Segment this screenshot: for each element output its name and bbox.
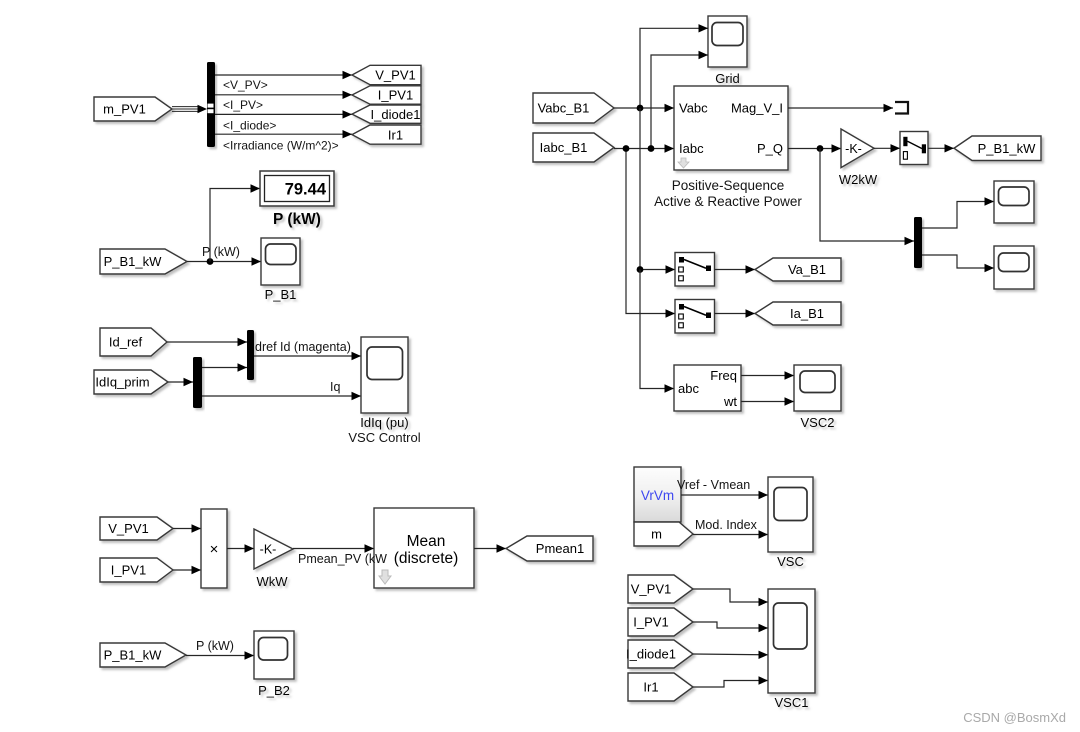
svg-text:I_PV1: I_PV1 bbox=[111, 563, 146, 578]
svg-text:VSC2: VSC2 bbox=[801, 415, 835, 430]
Goto tag V_PV1 (top) bbox=[352, 65, 421, 84]
wire Demux out2 to scope bbox=[922, 255, 994, 272]
wire Manual Switch to Goto P_B1_kW bbox=[928, 144, 954, 152]
From tag Ir1 (from, right) bbox=[628, 673, 693, 701]
wire Iabc_B1 to Iabc input bbox=[614, 144, 674, 152]
junction Vabc lower branch bbox=[637, 266, 644, 273]
wire Id_ref to Mux bbox=[167, 338, 247, 346]
svg-text:Active & Reactive Power: Active & Reactive Power bbox=[654, 194, 802, 209]
product block (multiply) bbox=[201, 509, 227, 588]
From tag Iabc_B1 bbox=[533, 133, 614, 162]
wire Mean to Pmean1 bbox=[474, 544, 506, 552]
wire IdIq_prim to Demux bbox=[168, 378, 193, 386]
svg-text:VSC1: VSC1 bbox=[775, 695, 809, 710]
svg-text:-K-: -K- bbox=[260, 543, 277, 557]
svg-text:P_B2: P_B2 bbox=[258, 683, 290, 698]
scope VSC1 bbox=[768, 589, 815, 710]
svg-text:IdIq_prim: IdIq_prim bbox=[95, 375, 149, 390]
wire switch 1 to Va_B1 bbox=[715, 265, 756, 273]
svg-text:Ir1: Ir1 bbox=[643, 680, 658, 695]
Positive-Sequence Active & Reactive Power block bbox=[674, 86, 788, 170]
wire wt to VSC2 bbox=[741, 397, 794, 405]
Goto tag I_PV1 (top) bbox=[352, 86, 421, 104]
svg-text:Pmean_PV (kW: Pmean_PV (kW bbox=[298, 552, 387, 566]
Goto tag Ir1 (top) bbox=[352, 125, 421, 144]
svg-text:P (kW): P (kW) bbox=[196, 639, 234, 653]
Mean (discrete) block bbox=[374, 508, 474, 588]
svg-text:abc: abc bbox=[678, 381, 699, 396]
wire V_PV1 to Product bbox=[173, 524, 201, 532]
From tag IdIq_prim bbox=[94, 370, 168, 394]
scope P_B1 bbox=[261, 238, 300, 302]
wire P_B1_kW to scope P_B2 bbox=[186, 651, 254, 659]
svg-text:Freq: Freq bbox=[710, 368, 737, 383]
wire Ir1 to VSC1 bbox=[693, 676, 768, 687]
svg-text:P_B1_kW: P_B1_kW bbox=[104, 254, 163, 269]
wire VrVm Vref-Vmean to VSC bbox=[681, 491, 768, 499]
junction Iabc lower branch bbox=[623, 145, 630, 152]
gain WkW bbox=[254, 529, 293, 589]
junction P_Q branch bbox=[817, 145, 824, 152]
svg-text:Ir1: Ir1 bbox=[388, 127, 403, 142]
demux IdIq bbox=[193, 357, 202, 408]
From tag Id_ref bbox=[100, 328, 167, 356]
wire Vabc down to switch 1 bbox=[640, 108, 675, 274]
wire P_B1_kW to scope P_B1 bbox=[187, 257, 261, 265]
terminator bbox=[895, 102, 908, 114]
bus wire m_PV1 to Bus Selector bbox=[172, 105, 207, 113]
svg-text:Id_ref: Id_ref bbox=[109, 335, 143, 350]
wire Demux out1 to Mux bbox=[202, 363, 247, 371]
svg-text:Ia_B1: Ia_B1 bbox=[790, 306, 824, 321]
svg-text:P_B1_kW: P_B1_kW bbox=[978, 141, 1037, 156]
scope P_B2 bbox=[254, 631, 294, 698]
svg-text:m_PV1: m_PV1 bbox=[103, 102, 146, 117]
Goto tag I_diode1 (top) bbox=[352, 105, 421, 123]
svg-text:V_PV1: V_PV1 bbox=[631, 582, 671, 597]
svg-text:m: m bbox=[651, 527, 662, 542]
wire Mux to scope IdIq bbox=[254, 352, 361, 360]
wire P_Q to gain W2kW bbox=[788, 144, 841, 152]
scope VSC2 bbox=[794, 365, 841, 430]
svg-text:79.44: 79.44 bbox=[285, 181, 327, 199]
svg-text:I_PV1: I_PV1 bbox=[378, 88, 413, 103]
scope Grid bbox=[708, 16, 747, 86]
svg-text:Mean: Mean bbox=[407, 533, 446, 550]
mux IdIq bbox=[247, 330, 254, 380]
From tag I_PV1 (from, left) bbox=[100, 558, 173, 582]
svg-text:Mag_V_I: Mag_V_I bbox=[731, 101, 783, 116]
From tag P_B1_kW (upper left) bbox=[100, 249, 187, 274]
svg-text:IdIq (pu): IdIq (pu) bbox=[360, 415, 408, 430]
junction Vabc branch bbox=[637, 105, 644, 112]
scope IdIq (pu) VSC Control bbox=[360, 337, 408, 430]
svg-text:Vref - Vmean: Vref - Vmean bbox=[677, 478, 750, 492]
svg-text:V_PV1: V_PV1 bbox=[108, 521, 148, 536]
wire WkW to Mean bbox=[293, 544, 374, 552]
wire Iabc branch to Grid input 2 bbox=[651, 51, 708, 149]
svg-text:I_PV1: I_PV1 bbox=[633, 615, 668, 630]
svg-text:Grid: Grid bbox=[715, 71, 740, 86]
svg-text:W2kW: W2kW bbox=[839, 172, 878, 187]
svg-text:<V_PV>: <V_PV> bbox=[223, 78, 268, 92]
wire bus output I_PV bbox=[215, 91, 352, 99]
svg-text:<I_PV>: <I_PV> bbox=[223, 98, 263, 112]
wire I_diode1 to VSC1 bbox=[693, 651, 768, 659]
gain W2kW bbox=[839, 129, 878, 187]
svg-text:Vabc_B1: Vabc_B1 bbox=[538, 101, 590, 116]
wire bus output Irradiance bbox=[215, 130, 352, 138]
wire Product to gain WkW bbox=[227, 544, 254, 552]
junction Iabc branch to Grid bbox=[648, 145, 655, 152]
wire bus output V_PV bbox=[215, 71, 352, 79]
wire Vabc_B1 to Vabc input bbox=[614, 104, 674, 112]
manual switch bbox=[900, 132, 928, 165]
From tag V_PV1 (from, right) bbox=[628, 575, 693, 603]
svg-text:VSC: VSC bbox=[777, 554, 804, 569]
From tag I_PV1 (from, right) bbox=[628, 608, 693, 636]
svg-text:Mod. Index: Mod. Index bbox=[695, 518, 758, 532]
From tag m_PV1 bbox=[94, 97, 172, 121]
svg-text:VSC Control: VSC Control bbox=[348, 430, 420, 445]
scope VSC bbox=[768, 477, 813, 569]
From tag P_B1_kW (lower left) bbox=[100, 643, 186, 667]
wire Demux out2 Iq to scope bbox=[202, 392, 361, 400]
wire switch 2 to Ia_B1 bbox=[715, 309, 756, 317]
svg-text:Iabc: Iabc bbox=[679, 141, 704, 156]
svg-text:P (kW): P (kW) bbox=[273, 211, 321, 228]
wire Vabc down to abc block bbox=[640, 270, 674, 393]
svg-text:Va_B1: Va_B1 bbox=[788, 262, 826, 277]
svg-text:I_diode1: I_diode1 bbox=[371, 107, 421, 122]
svg-text:P (kW): P (kW) bbox=[202, 245, 240, 259]
svg-text:-K-: -K- bbox=[845, 142, 862, 156]
multiport switch for Ia_B1 bbox=[675, 300, 715, 334]
svg-text:Iabc_B1: Iabc_B1 bbox=[540, 140, 588, 155]
svg-text:P_B1: P_B1 bbox=[265, 287, 297, 302]
svg-text:Iq: Iq bbox=[330, 380, 340, 394]
svg-text:Vabc: Vabc bbox=[679, 101, 708, 116]
svg-text:P_Q: P_Q bbox=[757, 141, 783, 156]
svg-text:<I_diode>: <I_diode> bbox=[223, 119, 276, 133]
svg-text:(discrete): (discrete) bbox=[394, 550, 459, 567]
svg-text:WkW: WkW bbox=[256, 574, 288, 589]
Goto tag Va_B1 bbox=[755, 258, 841, 281]
svg-text:<Irradiance (W/m^2)>: <Irradiance (W/m^2)> bbox=[223, 139, 339, 153]
wire P_Q branch to Demux bbox=[820, 149, 914, 246]
Goto tag P_B1_kW bbox=[954, 136, 1041, 161]
scope scope right 1 bbox=[994, 181, 1034, 223]
multiport switch for Va_B1 bbox=[675, 253, 715, 287]
wire bus output I_diode bbox=[215, 110, 352, 118]
From tag m bbox=[634, 522, 693, 546]
wire I_PV1 to Product bbox=[173, 566, 201, 574]
VrVm subsystem block bbox=[634, 467, 681, 522]
svg-text:Pmean1: Pmean1 bbox=[536, 541, 584, 556]
junction P_B1_kW branch bbox=[207, 258, 214, 265]
bus selector bbox=[207, 62, 215, 147]
abc Freq wt block bbox=[674, 365, 741, 411]
svg-text:Positive-Sequence: Positive-Sequence bbox=[672, 178, 785, 193]
scope scope right 2 bbox=[994, 246, 1034, 289]
demux right bbox=[914, 217, 922, 268]
wire Iabc down to switch 2 bbox=[626, 149, 675, 318]
bus selector input port mark bbox=[208, 104, 214, 114]
Goto tag Pmean1 bbox=[506, 536, 593, 561]
wire branch to Display bbox=[210, 184, 260, 261]
svg-text:I_diode1: I_diode1 bbox=[626, 647, 676, 662]
svg-text:V_PV1: V_PV1 bbox=[375, 68, 415, 83]
wire m Mod. Index to VSC bbox=[693, 530, 768, 538]
Goto tag Ia_B1 bbox=[755, 302, 841, 325]
svg-text:×: × bbox=[210, 541, 219, 558]
wire Demux out1 to scope bbox=[922, 197, 994, 228]
wire Vabc branch to Grid input 1 bbox=[640, 24, 708, 108]
wire Freq to VSC2 bbox=[741, 371, 794, 379]
From tag I_diode1 (from, right) bbox=[626, 640, 693, 668]
Display P (kW) value 79.44 bbox=[260, 171, 334, 228]
svg-text:CSDN @BosmXd: CSDN @BosmXd bbox=[963, 710, 1066, 725]
From tag Vabc_B1 bbox=[533, 93, 614, 123]
From tag V_PV1 (from, left) bbox=[100, 517, 173, 540]
wire Mag_V_I to Terminator bbox=[788, 104, 893, 112]
svg-text:P_B1_kW: P_B1_kW bbox=[104, 648, 163, 663]
wire I_PV1 to VSC1 bbox=[693, 622, 768, 632]
wire V_PV1 to VSC1 bbox=[693, 589, 768, 606]
svg-text:VrVm: VrVm bbox=[641, 488, 674, 503]
svg-text:wt: wt bbox=[723, 394, 737, 409]
svg-text:dref Id (magenta): dref Id (magenta) bbox=[255, 340, 351, 354]
wire W2kW to Manual Switch bbox=[874, 144, 900, 152]
